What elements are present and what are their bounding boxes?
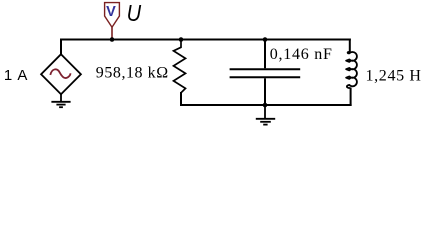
svg-text:1 A: 1 A [4, 67, 28, 84]
wire: inductor top lead (vertical, x=349.8) [349, 39, 351, 53]
node junction dot: capacitor top on top rail [263, 37, 268, 42]
node junction dot: probe on top rail [110, 37, 115, 42]
svg-text:U: U [127, 0, 142, 26]
svg-text:0,146 nF: 0,146 nF [270, 46, 333, 63]
wire: bottom rail, resistor corner to capacitor ground junction [180, 104, 266, 106]
wire: capacitor bottom lead (vertical, x=265) [264, 78, 266, 106]
svg-text:958,18 kΩ: 958,18 kΩ [96, 65, 169, 82]
wire: bottom rail, capacitor ground junction to inductor corner [264, 104, 352, 106]
node junction dot: ground tap on bottom rail [263, 103, 268, 108]
capacitor C1 (two horizontal plates) [230, 69, 301, 77]
voltmeter probe U (pentagon body with V) [105, 3, 120, 40]
inductor L1 (4-turn coil) [346, 52, 357, 88]
svg-text:1,245 H: 1,245 H [366, 68, 422, 85]
node junction dot: resistor top on top rail [179, 37, 184, 42]
ground symbol under bottom rail [256, 105, 275, 125]
wire: inductor bottom lead (vertical, x=350.6) [350, 88, 352, 107]
resistor R1 (vertical zigzag with leads) [174, 40, 186, 93]
wire: top rail, source corner to probe junction [60, 39, 113, 41]
ground symbol under current source [51, 94, 70, 107]
current source I1, 1 A AC (diamond symbol) [41, 54, 81, 94]
svg-text:V: V [106, 4, 116, 20]
sine wave glyph inside source [50, 69, 70, 78]
wire: top rail, resistor junction to capacitor junction [180, 39, 266, 41]
wire: resistor bottom lead (vertical, x=181) [180, 92, 182, 106]
probe stem [111, 27, 113, 39]
probe body [105, 3, 120, 28]
wire: top rail, probe junction to resistor junction [111, 39, 182, 41]
wire: capacitor top lead (vertical, x=265) [264, 39, 266, 69]
wire: current source top lead (vertical, x=61) [60, 39, 62, 56]
wire: top rail, capacitor junction to inductor corner [264, 39, 351, 41]
